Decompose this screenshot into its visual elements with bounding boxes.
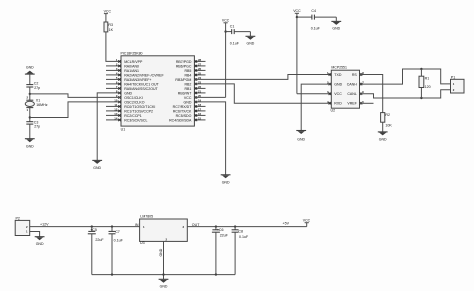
svg-text:LM7805: LM7805 (140, 215, 153, 219)
U1 pin 3 RA1/AN1 (106, 67, 139, 73)
U2 pin 8 RS (352, 71, 364, 77)
ground (U3) (159, 279, 169, 288)
node: crystal bottom junction (29, 116, 31, 118)
ground (crystal top) (25, 66, 35, 85)
svg-text:RB2: RB2 (184, 83, 191, 87)
svg-text:VREF: VREF (347, 102, 357, 106)
ground (C4) (331, 17, 341, 31)
svg-text:16MHz: 16MHz (36, 103, 48, 107)
U1 pin 10 OSC2/CLKO (114, 98, 144, 104)
crystal X1 16MHz (25, 94, 48, 118)
IC U3 LM7805 (135, 215, 200, 257)
svg-text:RB1: RB1 (184, 87, 191, 91)
capacitor C4 0.1uF (297, 9, 336, 31)
svg-text:25: 25 (198, 71, 202, 75)
svg-text:RB7/PGD: RB7/PGD (176, 60, 192, 64)
svg-text:GND: GND (332, 27, 340, 31)
U1 pin 1 MCLR/VPP (116, 58, 143, 64)
node: R1 bottom junction (420, 97, 422, 99)
svg-text:GND: GND (160, 285, 168, 289)
svg-text:11: 11 (114, 103, 117, 107)
svg-text:GND: GND (379, 138, 387, 142)
svg-text:RA3/AN3/VREF+: RA3/AN3/VREF+ (124, 78, 151, 82)
ground (crystal bottom) (25, 124, 35, 148)
connector P2 (15, 217, 30, 236)
svg-text:GND: GND (184, 101, 192, 105)
svg-text:IN: IN (135, 223, 139, 227)
wire U2 CANL(6) to P1 pin2 (360, 90, 451, 98)
+12V rail (P2 to U3 IN) (30, 223, 140, 227)
svg-text:R2: R2 (385, 113, 390, 117)
svg-text:RB6/PGC: RB6/PGC (176, 65, 192, 69)
capacitor C3 27p (26, 118, 40, 129)
ground rail (bottom) (92, 274, 235, 276)
wire R3 to U1 MCLR pin (106, 32, 121, 62)
U1 pin 23 RB2 (184, 80, 201, 86)
svg-text:GND: GND (247, 41, 255, 45)
U1 pin 16 RC5/SDO (176, 112, 206, 118)
svg-text:OSC1/CLKI: OSC1/CLKI (124, 96, 143, 100)
capacitor C7 0.1uF (109, 227, 124, 275)
svg-text:12: 12 (114, 107, 118, 111)
U1 pin 5 RA3/AN3/VREF+ (106, 76, 152, 82)
svg-text:C3: C3 (34, 120, 39, 124)
svg-text:GND: GND (334, 82, 342, 86)
power flag VCC (above C4) (293, 9, 301, 94)
wire U1 VCC(20) to VCC rail (194, 96, 225, 98)
U1 pin 13 RC2/CCP1 (106, 112, 142, 118)
svg-text:26: 26 (198, 67, 202, 71)
U1 pin 28 RB7/PGD (176, 58, 206, 64)
svg-text:RA5/AN4/SS/C2OUT: RA5/AN4/SS/C2OUT (124, 87, 158, 91)
power flag VCC (above R3) (104, 10, 112, 23)
svg-text:R1: R1 (425, 76, 430, 80)
wire P2 pin1 to ground (30, 232, 45, 246)
wire U2 GND(2) to ground (296, 84, 331, 141)
U2 pin 1 TXD (327, 71, 342, 77)
svg-text:GND: GND (222, 180, 230, 184)
svg-text:22: 22 (198, 85, 202, 89)
svg-text:+C6: +C6 (217, 228, 224, 232)
U2 pin 3 VCC (327, 90, 342, 96)
svg-text:0.1uF: 0.1uF (311, 27, 321, 31)
+5V rail (U3 OUT to right) (187, 221, 306, 226)
svg-text:VCC: VCC (303, 218, 311, 222)
svg-text:RC2/CCP1: RC2/CCP1 (124, 114, 142, 118)
wire U1 RB2(23) to U2 RXD (194, 84, 331, 103)
U2 pin 4 RXD (327, 100, 342, 106)
resistor R2 10K (381, 113, 393, 128)
svg-text:RA4/T0CKI/UC1 OUT: RA4/T0CKI/UC1 OUT (124, 83, 159, 87)
svg-text:18: 18 (198, 103, 202, 107)
node: C8 junction (234, 225, 236, 227)
svg-text:R3: R3 (108, 23, 113, 27)
wire crystal top to OSC1 (30, 94, 121, 98)
svg-text:VCC: VCC (334, 92, 342, 96)
svg-text:RC7/RX/DT: RC7/RX/DT (173, 105, 193, 109)
svg-text:17: 17 (198, 107, 202, 111)
IC U2 MCP2551 (331, 66, 360, 113)
svg-text:GND: GND (26, 66, 34, 70)
svg-text:CANL: CANL (347, 92, 356, 96)
U1 pin 25 RB4 (184, 71, 205, 77)
svg-text:10K: 10K (385, 124, 392, 128)
U1 pin 18 RC7/RX/DT (173, 103, 206, 109)
U1 pin 27 RB6/PGC (176, 62, 206, 68)
svg-text:RB0/INT: RB0/INT (178, 92, 192, 96)
capacitor C5 22uF (88, 227, 105, 275)
svg-text:U1: U1 (121, 128, 126, 132)
U1 pin 8 GND (116, 89, 133, 95)
U1 pin 11 RC0/T1OSO/T1CKI (106, 103, 155, 109)
node: crystal top junction (29, 93, 31, 95)
svg-text:RXD: RXD (334, 102, 342, 106)
IC U1 PIC18F25K80 (121, 51, 195, 131)
svg-text:GND: GND (124, 92, 132, 96)
U2 pin 2 GND (327, 81, 343, 87)
wire U1 GND(8) to ground (92, 93, 121, 170)
svg-text:U2: U2 (331, 109, 336, 113)
svg-text:13: 13 (114, 112, 118, 116)
U1 pin 9 OSC1/CLKI (116, 94, 143, 100)
power flag VCC (+5V rail end) (303, 218, 311, 226)
svg-text:28: 28 (198, 58, 202, 62)
wire U2 CANH(7) to P1 pin1 (360, 69, 451, 84)
svg-text:C1: C1 (230, 24, 235, 28)
svg-text:RA0/AN0: RA0/AN0 (124, 65, 139, 69)
svg-text:RC1/T1OSI/CCP2: RC1/T1OSI/CCP2 (124, 110, 153, 114)
svg-text:RA1/AN1: RA1/AN1 (124, 69, 139, 73)
resistor R1 120 (419, 69, 431, 98)
svg-text:14: 14 (114, 116, 118, 120)
svg-text:RC5/SDO: RC5/SDO (176, 114, 192, 118)
U1 pin 2 RA0/AN0 (106, 62, 139, 68)
capacitor C8 0.1uF (232, 227, 249, 275)
U1 pin 24 RB3/PGM (175, 76, 201, 82)
capacitor C1 0.1uF (226, 24, 251, 45)
capacitor C6 22uF (212, 227, 229, 275)
svg-text:22uF: 22uF (220, 233, 229, 237)
svg-text:RA2/AN2/VREF-/CVREF: RA2/AN2/VREF-/CVREF (124, 74, 164, 78)
svg-text:P1: P1 (451, 75, 455, 79)
svg-text:16: 16 (198, 112, 202, 116)
svg-text:MCP2551: MCP2551 (331, 66, 347, 70)
U1 pin 14 RC3/SCK/SCL (106, 116, 147, 122)
svg-text:RC0/T1OSO/T1CKI: RC0/T1OSO/T1CKI (124, 105, 155, 109)
svg-text:GND: GND (36, 242, 44, 246)
wire U3 GND pin to ground rail (163, 241, 165, 279)
svg-text:GND: GND (93, 166, 101, 170)
node: C1 junction (224, 30, 226, 32)
U1 pin 21 RB0/INT (178, 89, 206, 95)
node: U3 GND junction (162, 273, 164, 275)
U2 pin 5 VREF (347, 100, 364, 106)
U1 pin 22 RB1 (184, 85, 205, 91)
connector P1 (451, 75, 465, 93)
svg-text:RC4/SDI/SDA: RC4/SDI/SDA (169, 119, 192, 123)
svg-text:GND: GND (26, 145, 34, 149)
svg-text:+5V: +5V (283, 221, 290, 225)
svg-text:0.1uF: 0.1uF (239, 235, 249, 239)
svg-text:C7: C7 (115, 230, 120, 234)
node: R1 top junction (420, 68, 422, 70)
svg-text:C4: C4 (311, 9, 316, 13)
svg-text:MCLR/VPP: MCLR/VPP (124, 60, 143, 64)
resistor R3 (104, 22, 114, 32)
node: C4 junction (296, 16, 298, 18)
node: C6 junction (215, 225, 217, 227)
U2 pin 7 CANH (347, 81, 365, 87)
svg-text:0.1uF: 0.1uF (230, 41, 240, 45)
wire U1 GND(19) to ground (194, 102, 230, 184)
svg-text:OSC2/CLKO: OSC2/CLKO (124, 101, 145, 105)
svg-text:C8: C8 (238, 230, 243, 234)
svg-text:21: 21 (198, 89, 202, 93)
svg-text:RS: RS (352, 73, 358, 77)
svg-text:X1: X1 (36, 99, 40, 103)
svg-text:RB4: RB4 (184, 74, 191, 78)
svg-text:RB5: RB5 (184, 69, 191, 73)
wire VCC to U2 VCC(3) (297, 93, 331, 95)
svg-text:U3: U3 (140, 241, 145, 245)
svg-text:27p: 27p (34, 86, 40, 90)
svg-text:VCC: VCC (222, 19, 230, 23)
svg-text:+C5: +C5 (90, 228, 97, 232)
U1 pin 15 RC4/SDI/SDA (169, 116, 205, 122)
U1 pin 6 RA4/T0CKI/UC1 OUT (106, 80, 160, 86)
svg-text:RC3/SCK/SCL: RC3/SCK/SCL (124, 119, 147, 123)
svg-text:VCC: VCC (293, 9, 301, 13)
capacitor C2 27p (26, 82, 40, 94)
node: C7 junction (111, 225, 113, 227)
svg-text:CANH: CANH (347, 82, 357, 86)
U1 pin 20 VCC (184, 94, 202, 100)
svg-text:15: 15 (198, 116, 202, 120)
ground (C1) (246, 32, 256, 46)
node: C7 bottom junction (111, 273, 113, 275)
wire U2 RS(8) to R2 (360, 75, 383, 113)
U1 pin 26 RB5 (184, 67, 205, 73)
svg-text:27p: 27p (34, 125, 40, 129)
svg-text:GND: GND (159, 248, 163, 256)
wire crystal bottom to OSC2 (30, 102, 121, 118)
node: C6 bottom junction (215, 273, 217, 275)
svg-text:RC6/TX/CK: RC6/TX/CK (173, 110, 192, 114)
svg-text:22uF: 22uF (95, 238, 104, 242)
svg-text:GND: GND (297, 137, 305, 141)
svg-text:1K: 1K (109, 28, 114, 32)
power flag VCC (above C1) (222, 19, 230, 98)
svg-text:+12V: +12V (40, 223, 49, 227)
U1 pin 7 RA5/AN4/SS/C2OUT (106, 85, 159, 91)
U2 pin 6 CANL (347, 90, 364, 96)
svg-text:0.1uF: 0.1uF (114, 238, 124, 242)
U2 pin 5 VREF stub (360, 102, 374, 104)
wire U1 RB3(24) to U2 TXD (194, 75, 331, 80)
U1 pin 4 RA2/AN2/VREF-/CVREF (106, 71, 164, 77)
node: C5 junction (91, 225, 93, 227)
svg-text:27: 27 (198, 62, 202, 66)
svg-text:120: 120 (425, 85, 431, 89)
U1 pin 12 RC1/T1OSI/CCP2 (106, 107, 153, 113)
U1 pin 19 GND (184, 98, 202, 104)
svg-text:RB3/PGM: RB3/PGM (175, 78, 191, 82)
ground (R2) (378, 122, 388, 141)
svg-text:VCC: VCC (104, 10, 112, 14)
svg-text:P2: P2 (16, 217, 20, 221)
svg-text:C2: C2 (34, 82, 39, 86)
U1 pin 17 RC6/TX/CK (173, 107, 206, 113)
svg-text:TXD: TXD (334, 73, 342, 77)
svg-text:VCC: VCC (184, 96, 192, 100)
svg-text:PIC18F25K80: PIC18F25K80 (121, 51, 143, 55)
